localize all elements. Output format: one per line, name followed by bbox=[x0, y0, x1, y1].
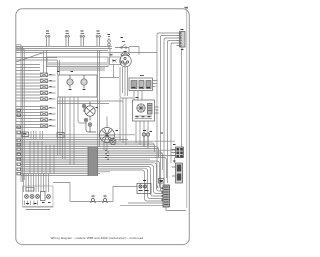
wire relay drops bbox=[136, 121, 148, 149]
inline component 15 bbox=[103, 196, 108, 203]
switch S4 bbox=[96, 34, 100, 47]
switch S3 bbox=[80, 34, 84, 47]
switch 11 bbox=[115, 42, 129, 53]
fuse F9 bbox=[41, 124, 48, 128]
wire starter leads bbox=[104, 117, 107, 151]
component 23 bbox=[142, 131, 149, 147]
instrument cluster bottom left bbox=[23, 174, 54, 210]
wire left edge corners bbox=[16, 45, 24, 49]
wire top bus bbox=[16, 47, 112, 51]
fuse F3 bbox=[41, 85, 48, 89]
top right connector C1 bbox=[177, 32, 186, 51]
ignition module box 27 bbox=[129, 76, 153, 91]
connector block B right bbox=[172, 163, 183, 183]
fuse F1 bbox=[41, 73, 48, 77]
wire drops from box bbox=[58, 97, 87, 165]
left stub rows to fuses bbox=[16, 65, 40, 128]
wire center drops bbox=[110, 49, 114, 78]
wire box27 right stubs bbox=[153, 81, 158, 87]
ignition switch cluster bbox=[82, 104, 96, 132]
fuse F6 bbox=[41, 106, 48, 110]
switch S1 bbox=[46, 34, 50, 47]
instrument box 19/18 bbox=[58, 75, 97, 97]
vertical crossing wires bbox=[30, 141, 54, 173]
wire connector drop bbox=[181, 51, 183, 148]
relay 35 small box bbox=[159, 179, 165, 184]
wire dense band upper bbox=[16, 141, 175, 159]
dense block connector bbox=[88, 147, 98, 176]
svg-text:Wiring diagram - models 1585 a: Wiring diagram - models 1585 and 2000 (c… bbox=[51, 236, 144, 240]
fuse bus right bbox=[48, 75, 56, 126]
wire dense band lower bbox=[21, 161, 164, 189]
fuse labels bbox=[50, 75, 52, 126]
relay box 26 bbox=[110, 57, 121, 65]
distributor 25 bbox=[120, 53, 132, 67]
distributor lead bundle bbox=[100, 67, 133, 99]
left vertical bus bbox=[21, 45, 24, 182]
label specks bbox=[46, 30, 184, 182]
right inner bus bbox=[186, 10, 188, 208]
border frame bbox=[16, 9, 190, 245]
wire mid band group1 bbox=[16, 135, 135, 140]
fan wires bottom right bbox=[120, 203, 163, 205]
mid components row bbox=[22, 131, 64, 139]
connector block A right bbox=[172, 147, 184, 163]
wire cluster link bbox=[53, 183, 70, 202]
inline connector 8 bbox=[108, 37, 111, 49]
alternator 12 bbox=[85, 102, 95, 120]
wire sweep verticals bbox=[58, 51, 100, 148]
relay box 22 bbox=[133, 100, 159, 121]
wire right feeds bbox=[129, 47, 139, 55]
left edge connector stubs bbox=[17, 109, 20, 175]
wire diagonal bbox=[16, 53, 44, 63]
connector stack C bottom right bbox=[162, 185, 186, 211]
wire bundle extension bbox=[120, 98, 126, 145]
inline component 14 bbox=[91, 196, 96, 203]
corner ticks 111 bbox=[184, 6, 188, 9]
fuse F4 bbox=[41, 91, 48, 95]
wire bottom long bbox=[70, 187, 137, 202]
fuse F7 bbox=[41, 112, 48, 116]
switch S2 bbox=[65, 34, 69, 47]
bus mid line bbox=[57, 101, 123, 104]
wire left long A bbox=[16, 53, 157, 61]
fuse F8 bbox=[41, 118, 48, 122]
wire box27 bottom stubs bbox=[134, 91, 142, 101]
wire feeds top to fuse bbox=[44, 51, 47, 74]
ignition switch strip box bbox=[47, 57, 108, 67]
band curves to right bus bbox=[152, 143, 167, 178]
band terminal ticks bbox=[105, 150, 109, 159]
starter 13 bbox=[100, 128, 117, 145]
fuse F2 bbox=[41, 79, 48, 83]
fuse F5 bbox=[41, 97, 48, 101]
bus pair center bbox=[57, 68, 105, 70]
component 30 box bbox=[137, 181, 151, 194]
nested wires from connector C1 bbox=[157, 33, 177, 188]
